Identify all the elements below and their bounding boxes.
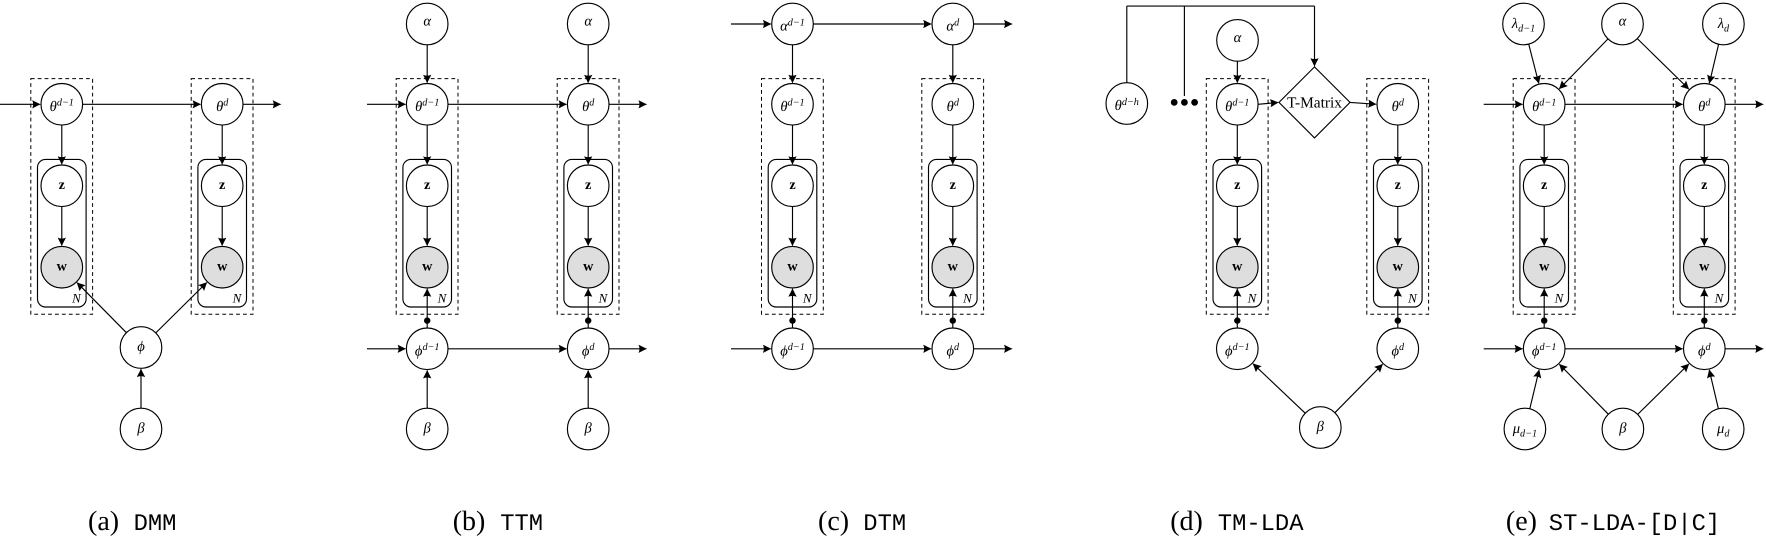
svg-text:β: β <box>1618 421 1627 437</box>
plate b-left: outer dashed document plate <box>396 79 458 315</box>
node beta (e) <box>1602 408 1644 450</box>
wire phi->w (c-right) <box>949 288 957 328</box>
svg-text:(e): (e) <box>1506 506 1537 537</box>
wire beta->phi (b-left) <box>423 370 431 409</box>
svg-text:α: α <box>1619 14 1627 30</box>
svg-text:(b): (b) <box>453 506 486 537</box>
node theta^{d} (e) <box>1684 84 1726 126</box>
node lambda_d (e) <box>1703 3 1745 45</box>
node theta^{d-h} (d) <box>1106 83 1148 125</box>
node z (d-left) <box>1217 165 1259 207</box>
svg-text:α: α <box>584 14 592 30</box>
node alpha (b-right) <box>567 3 609 45</box>
node theta^{d-1} (e) <box>1523 84 1565 126</box>
svg-text:N: N <box>1714 291 1725 306</box>
svg-text:z: z <box>950 177 956 193</box>
wire phi_dm1->phi_d (c) <box>813 345 932 353</box>
svg-text:z: z <box>59 177 65 193</box>
junction dot on phi->w wire (e-right) <box>1701 317 1707 323</box>
wire z->w (a-left) <box>58 207 66 247</box>
svg-text:w: w <box>583 259 594 275</box>
caption (d) TM-LDA <box>1170 506 1304 538</box>
node phi^{d-1} (b) <box>406 328 448 370</box>
node phi^{d-1} (c) <box>772 328 814 370</box>
node w (c-left) observed <box>772 246 814 288</box>
plate c-left: inner solid plate (N words) <box>768 159 817 307</box>
plate e-left: outer dashed document plate <box>1513 79 1575 315</box>
wire mu_dm1->phi_dm1 (e) <box>1530 369 1541 409</box>
wire phi_d->out (c) <box>974 345 1013 353</box>
node lambda_{d-1} (e) <box>1503 3 1545 45</box>
plate d-right: inner solid plate (N words) <box>1374 159 1423 307</box>
junction dot on phi->w wire (e-left) <box>1541 317 1547 323</box>
wire in->theta_dm1 (e) <box>1484 100 1524 108</box>
wire beta->phi_d (d) <box>1335 364 1383 413</box>
node theta^{d} (d) <box>1377 84 1419 126</box>
wire phi_dm1->phi_d (b) <box>448 345 567 353</box>
wire z->w (d-left) <box>1233 207 1241 247</box>
plate e-right: outer dashed document plate <box>1673 79 1735 315</box>
svg-text:DMM: DMM <box>134 511 177 538</box>
plate a-right: outer dashed document plate <box>191 79 253 315</box>
node phi^{d-1} (e) <box>1523 328 1565 370</box>
svg-text:w: w <box>57 259 68 275</box>
plate d-right: outer dashed document plate <box>1367 79 1429 315</box>
wire theta->z (b-left) <box>423 125 431 165</box>
svg-text:w: w <box>1539 259 1550 275</box>
wire alpha->theta (b-left) <box>423 45 431 84</box>
svg-text:z: z <box>789 177 795 193</box>
svg-text:w: w <box>787 259 798 275</box>
wire phi->w (b-left) <box>423 288 431 328</box>
wire alpha->theta (c-left) <box>788 45 796 84</box>
svg-text:DTM: DTM <box>863 511 906 538</box>
node w (a-left) observed <box>41 246 83 288</box>
wire theta->z (a-left) <box>58 125 66 165</box>
node z (c-left) <box>772 165 814 207</box>
plate a-left: outer dashed document plate <box>31 79 93 315</box>
wire beta->phi_dm1 (d) <box>1252 363 1305 413</box>
wire phi->w (d-left) <box>1233 288 1241 328</box>
node alpha^{d} (c) <box>932 3 974 45</box>
node z (e-left) <box>1523 165 1565 207</box>
svg-text:TM-LDA: TM-LDA <box>1218 511 1304 538</box>
wire theta_dm1->T-Matrix (d) <box>1258 99 1279 107</box>
svg-text:z: z <box>219 177 225 193</box>
wire z->w (a-right) <box>218 207 226 247</box>
plate b-left: inner solid plate (N words) <box>403 159 452 307</box>
wire T-Matrix->theta_d (d) <box>1350 100 1377 108</box>
svg-text:w: w <box>217 259 228 275</box>
plate b-right: inner solid plate (N words) <box>564 159 613 307</box>
wire alpha->theta_dm1 (e) <box>1559 39 1608 90</box>
node w (e-right) observed <box>1684 246 1726 288</box>
wire beta->phi_dm1 (e) <box>1559 364 1609 415</box>
node z (b-right) <box>567 165 609 207</box>
wire theta->z (d-left) <box>1233 125 1241 165</box>
wire beta->phi (a) <box>137 368 145 408</box>
node mu_{d-1} (e) <box>1504 408 1546 450</box>
caption (b) TTM <box>453 506 543 538</box>
wire theta_dm1->theta_d (b) <box>448 100 567 108</box>
plate b-right: outer dashed document plate <box>557 79 619 315</box>
wire theta_dm1->theta_d (a) <box>83 100 202 108</box>
svg-text:N: N <box>598 291 609 306</box>
plate c-right: outer dashed document plate <box>922 79 984 315</box>
node theta^{d} (b) <box>567 84 609 126</box>
wire in->phi_dm1 (b) <box>367 345 406 353</box>
svg-text:TTM: TTM <box>500 511 543 538</box>
wire theta->z (d-right) <box>1394 125 1402 165</box>
svg-text:β: β <box>1316 419 1325 435</box>
node phi^{d-1} (d) <box>1217 328 1259 370</box>
wire alpha_d->out (c) <box>974 20 1013 28</box>
node z (a-left) <box>41 165 83 207</box>
wire theta->z (b-right) <box>584 125 592 165</box>
wire theta->z (c-left) <box>788 125 796 165</box>
wire beta->phi_d (e) <box>1638 363 1690 414</box>
wire phi->w left (a) <box>76 282 126 333</box>
svg-text:w: w <box>948 259 959 275</box>
wire theta->z (e-left) <box>1540 125 1548 165</box>
wire bus->T-Matrix (d) <box>1310 6 1318 67</box>
wire in->alpha_dm1 (c) <box>731 20 772 28</box>
node alpha (b-left) <box>406 3 448 45</box>
node theta^{d-1} (d) <box>1217 84 1259 126</box>
node beta (b-left) <box>406 408 448 450</box>
svg-text:z: z <box>585 177 591 193</box>
wire in->theta_dm1 (a) <box>0 100 41 108</box>
wire theta_dmh->bus (d) <box>1126 6 1128 83</box>
wire phi->w (d-right) <box>1394 288 1402 328</box>
svg-text:(d): (d) <box>1170 506 1203 537</box>
node alpha^{d-1} (c) <box>772 3 814 45</box>
junction dot on phi->w wire (c-left) <box>789 317 795 323</box>
plate e-right: inner solid plate (N words) <box>1680 159 1729 307</box>
wire alpha->theta (b-right) <box>584 45 592 84</box>
wire phi_d->out (b) <box>609 345 647 353</box>
node z (a-right) <box>201 165 243 207</box>
T-Matrix transition node (d) <box>1279 67 1350 138</box>
svg-text:z: z <box>1234 177 1240 193</box>
svg-text:α: α <box>423 14 431 30</box>
node theta^{d-1} (b) <box>406 84 448 126</box>
svg-text:z: z <box>424 177 430 193</box>
node z (b-left) <box>406 165 448 207</box>
svg-text:ϕ: ϕ <box>137 339 145 355</box>
node theta^{d} (a) <box>201 84 243 126</box>
svg-text:N: N <box>802 291 813 306</box>
junction dot on phi->w wire (b-right) <box>585 317 591 323</box>
node theta^{d-1} (a) <box>41 84 83 126</box>
wire theta->z (a-right) <box>218 125 226 165</box>
node beta (a) <box>120 408 162 450</box>
ellipsis dots (d) <box>1171 99 1198 106</box>
caption (e) ST-LDA-[D|C] <box>1506 506 1720 538</box>
node w (d-left) observed <box>1217 246 1259 288</box>
wire theta_dm1->theta_d (e) <box>1565 100 1684 108</box>
junction dot on phi->w wire (d-right) <box>1395 317 1401 323</box>
node w (e-left) observed <box>1523 246 1565 288</box>
wire in->phi_dm1 (c) <box>731 345 772 353</box>
wire theta->z (e-right) <box>1700 125 1708 165</box>
svg-text:T-Matrix: T-Matrix <box>1287 94 1342 111</box>
wire theta_d->out (b) <box>609 100 647 108</box>
wire phi->w (e-right) <box>1700 288 1708 328</box>
wire mu_d->phi_d (e) <box>1707 369 1718 409</box>
node alpha (e) <box>1602 3 1644 45</box>
wire phi->w right (a) <box>156 282 208 333</box>
wire phi_d->out (e) <box>1725 345 1764 353</box>
wire theta_d->out (a) <box>243 100 282 108</box>
wire top bus (d) <box>1127 5 1315 7</box>
wire z->w (b-left) <box>423 207 431 247</box>
svg-text:N: N <box>962 291 973 306</box>
node theta^{d-1} (c) <box>772 84 814 126</box>
svg-text:w: w <box>1699 259 1710 275</box>
node z (c-right) <box>932 165 974 207</box>
wire z->w (c-left) <box>788 207 796 247</box>
wire alpha->theta (c-right) <box>949 45 957 84</box>
node beta (d) <box>1300 407 1342 449</box>
node theta^{d} (c) <box>932 84 974 126</box>
plate a-right: inner solid plate (N words) <box>198 159 247 307</box>
node phi^{d} (d) <box>1377 328 1419 370</box>
junction dot on phi->w wire (d-left) <box>1234 317 1240 323</box>
svg-text:β: β <box>136 421 145 437</box>
caption (c) DTM <box>818 506 906 538</box>
svg-text:z: z <box>1395 177 1401 193</box>
svg-text:w: w <box>1393 259 1404 275</box>
node phi (a) <box>120 327 162 369</box>
node w (c-right) observed <box>932 246 974 288</box>
wire z->w (b-right) <box>584 207 592 247</box>
wire in->phi_dm1 (e) <box>1484 345 1524 353</box>
wire theta->z (c-right) <box>949 125 957 165</box>
svg-text:N: N <box>1247 291 1258 306</box>
svg-text:(c): (c) <box>818 506 849 537</box>
svg-text:ST-LDA-[D|C]: ST-LDA-[D|C] <box>1549 511 1720 538</box>
wire lambda_dm1->theta_dm1 (e) <box>1529 44 1541 84</box>
wire theta_d->out (e) <box>1725 100 1764 108</box>
wire alpha->theta_dm1 (d) <box>1233 61 1241 83</box>
svg-text:N: N <box>1407 291 1418 306</box>
wire phi_dm1->phi_d (e) <box>1565 345 1684 353</box>
node z (e-right) <box>1684 165 1726 207</box>
junction dot on phi->w wire (c-right) <box>950 317 956 323</box>
svg-text:(a): (a) <box>88 506 119 537</box>
svg-text:w: w <box>1232 259 1243 275</box>
wire z->w (d-right) <box>1394 207 1402 247</box>
wire alpha->theta_d (e) <box>1637 39 1689 90</box>
wire z->w (e-left) <box>1540 207 1548 247</box>
plate e-left: inner solid plate (N words) <box>1520 159 1569 307</box>
svg-text:N: N <box>71 291 82 306</box>
wire ellipsis->bus (d) <box>1183 6 1185 96</box>
junction dot on phi->w wire (b-left) <box>424 317 430 323</box>
node w (a-right) observed <box>201 246 243 288</box>
svg-text:z: z <box>1701 177 1707 193</box>
svg-text:N: N <box>1554 291 1565 306</box>
wire phi->w (c-left) <box>788 288 796 328</box>
svg-text:w: w <box>422 259 433 275</box>
node alpha (d) <box>1217 20 1259 62</box>
wire z->w (e-right) <box>1700 207 1708 247</box>
svg-text:α: α <box>1234 30 1242 46</box>
caption (a) DMM <box>88 506 176 538</box>
wire phi->w (b-right) <box>584 288 592 328</box>
node w (b-left) observed <box>406 246 448 288</box>
svg-text:β: β <box>423 421 432 437</box>
plate c-left: outer dashed document plate <box>762 79 824 315</box>
wire beta->phi (b-right) <box>584 370 592 409</box>
node w (d-right) observed <box>1377 246 1419 288</box>
node mu_d (e) <box>1702 408 1744 450</box>
plate d-left: inner solid plate (N words) <box>1213 159 1262 307</box>
svg-text:β: β <box>584 421 593 437</box>
wire in->theta_dm1 (b) <box>367 100 406 108</box>
wire lambda_d->theta_d (e) <box>1707 44 1718 84</box>
svg-text:N: N <box>437 291 448 306</box>
wire alpha_dm1->alpha_d (c) <box>813 20 932 28</box>
node w (b-right) observed <box>567 246 609 288</box>
plate d-left: outer dashed document plate <box>1206 79 1268 315</box>
plate a-left: inner solid plate (N words) <box>38 159 87 307</box>
plate c-right: inner solid plate (N words) <box>929 159 978 307</box>
wire z->w (c-right) <box>949 207 957 247</box>
wire phi->w (e-left) <box>1540 288 1548 328</box>
node phi^{d} (c) <box>932 328 974 370</box>
node phi^{d} (e) <box>1684 328 1726 370</box>
node beta (b-right) <box>567 408 609 450</box>
svg-text:N: N <box>232 291 243 306</box>
node phi^{d} (b) <box>567 328 609 370</box>
node z (d-right) <box>1377 165 1419 207</box>
svg-text:z: z <box>1541 177 1547 193</box>
